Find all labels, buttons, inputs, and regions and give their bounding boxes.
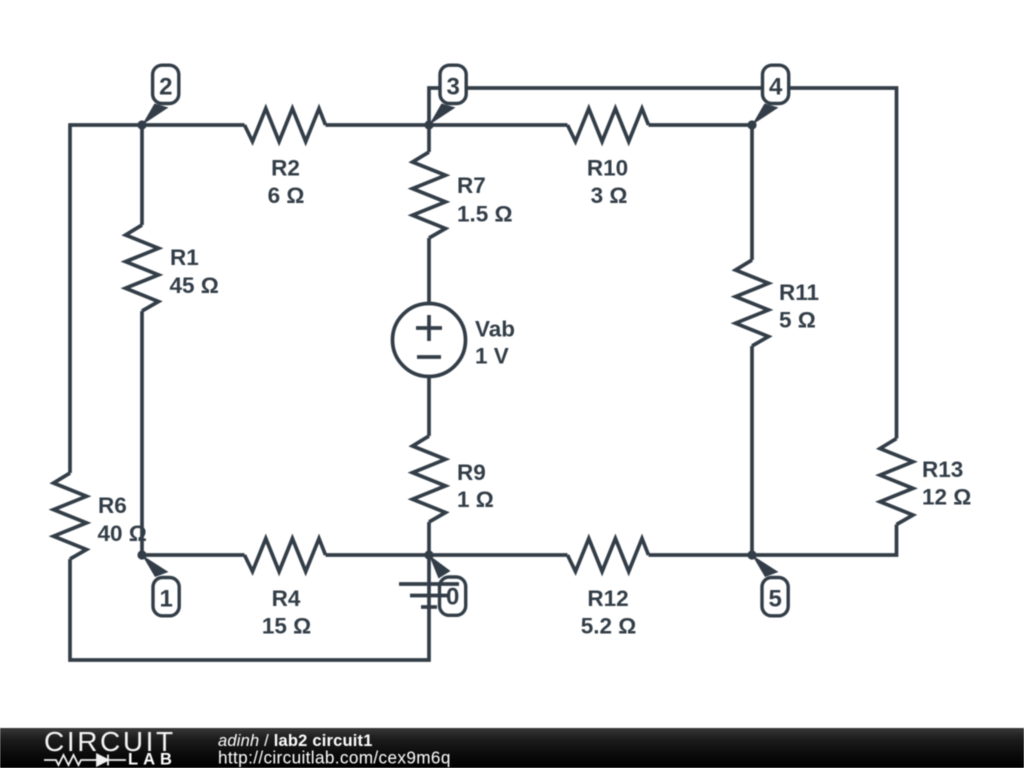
wire top rail node2-node3 left segment	[70, 123, 245, 127]
svg-text:R4: R4	[272, 586, 301, 611]
wire node1 to R4	[142, 553, 245, 557]
svg-text:5: 5	[769, 586, 782, 613]
wire node3 to R7 top	[427, 125, 431, 152]
svg-text:1: 1	[160, 586, 173, 613]
resistor R9	[413, 436, 494, 522]
svg-text:R6: R6	[98, 493, 127, 518]
wire left vertical lower + bottom loop to node0	[70, 555, 429, 660]
wire R10 to node4	[649, 123, 753, 127]
resistor R10	[568, 109, 649, 209]
svg-text:0: 0	[446, 584, 459, 611]
svg-text:4: 4	[769, 74, 783, 101]
svg-text:R12: R12	[587, 586, 628, 611]
wire R7 bottom to Vab top	[427, 238, 431, 304]
svg-text:3 Ω: 3 Ω	[591, 183, 628, 208]
wire node0 to R12	[429, 553, 568, 557]
node 0	[424, 550, 465, 615]
voltage source Vab	[393, 304, 516, 377]
node 1	[137, 550, 179, 615]
wire left vertical node2 branch upper	[68, 123, 72, 473]
wire node3 jog and top rail to right side down to R13	[429, 88, 897, 439]
svg-text:45 Ω: 45 Ω	[170, 273, 219, 298]
CircuitLab logo wordmark	[44, 726, 177, 768]
svg-text:15 Ω: 15 Ω	[262, 614, 311, 639]
wire R11 bottom to node5	[750, 346, 754, 555]
svg-text:R13: R13	[922, 457, 963, 482]
wire node4 to R11 top	[750, 125, 754, 260]
wire R2 to R10 segment through node3	[326, 123, 568, 127]
resistor R11	[736, 260, 820, 346]
resistor R12	[568, 539, 649, 639]
svg-text:R2: R2	[271, 156, 300, 181]
resistor R6	[54, 473, 147, 559]
footer bar	[0, 728, 1024, 768]
svg-text:12 Ω: 12 Ω	[922, 485, 971, 510]
node 4	[747, 65, 788, 129]
resistor R4	[245, 539, 326, 639]
node 3	[424, 65, 466, 129]
wire R1 top lead	[140, 125, 144, 225]
wire Vab bottom to R9 top	[427, 377, 431, 437]
ground	[399, 584, 459, 607]
svg-text:Vab: Vab	[475, 317, 515, 342]
svg-text:1 V: 1 V	[475, 344, 509, 369]
wire R4 to node0	[326, 553, 430, 557]
resistor R1	[126, 225, 219, 311]
resistor R2	[245, 109, 326, 209]
svg-text:R11: R11	[779, 280, 819, 305]
svg-text:3: 3	[447, 74, 460, 101]
node 5	[747, 550, 788, 615]
svg-text:R1: R1	[170, 245, 199, 270]
wire R13 bottom lead to node5	[752, 525, 897, 556]
svg-text:http://circuitlab.com/cex9m6q: http://circuitlab.com/cex9m6q	[218, 748, 451, 768]
svg-text:5 Ω: 5 Ω	[779, 308, 816, 333]
svg-text:1.5 Ω: 1.5 Ω	[457, 202, 513, 227]
wire R1 bottom lead to node1	[140, 311, 144, 555]
resistor R7	[413, 152, 513, 238]
CircuitLab logo schematic squiggle	[44, 755, 126, 766]
wire R12 to node5	[649, 553, 753, 557]
svg-text:R9: R9	[457, 460, 486, 485]
node 2	[137, 65, 178, 129]
svg-text:LAB: LAB	[128, 751, 177, 768]
svg-text:R10: R10	[587, 156, 628, 181]
wire R9 bottom to node0	[427, 522, 431, 555]
svg-text:5.2 Ω: 5.2 Ω	[581, 614, 637, 639]
svg-text:6 Ω: 6 Ω	[268, 183, 305, 208]
svg-text:R7: R7	[457, 173, 486, 198]
svg-text:1 Ω: 1 Ω	[457, 487, 494, 512]
svg-text:2: 2	[159, 74, 172, 101]
svg-text:40 Ω: 40 Ω	[98, 521, 147, 546]
resistor R13	[880, 439, 971, 525]
footer title text	[218, 732, 451, 768]
